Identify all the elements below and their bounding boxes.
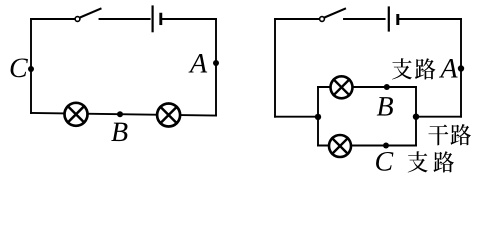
node B (left circuit) [117, 111, 123, 117]
wire: branch rectangle right vertical [415, 87, 417, 146]
label A (left circuit) [188, 54, 207, 72]
lamp L3 (top branch) [331, 76, 353, 98]
label B (right circuit) [377, 97, 393, 115]
wire: right junction to right side [416, 116, 461, 118]
label B (left circuit) [111, 123, 127, 141]
wire: top branch [318, 86, 416, 88]
switch S1 (open) [75, 9, 100, 22]
junction node (right) [413, 114, 419, 120]
wire: left circuit top-left segment [31, 18, 75, 20]
label 支路A (branch A) [392, 58, 458, 79]
lamp L1 [65, 103, 88, 126]
junction node (left) [315, 114, 321, 120]
wire: switch to battery [100, 18, 150, 20]
battery B2 [389, 8, 398, 31]
wire: left circuit left side [30, 19, 32, 113]
wire: left side to left junction [275, 116, 318, 118]
node A (left circuit) [213, 60, 219, 66]
battery B1 [153, 7, 161, 32]
wire: right circuit top-left segment [275, 18, 319, 20]
wire: right circuit right side [460, 19, 462, 117]
node C (left circuit) [28, 66, 34, 72]
lamp L2 [157, 104, 180, 127]
label 干路 (main branch) [428, 124, 471, 145]
wire: switch to battery [344, 18, 385, 20]
wire: right circuit left side [274, 19, 276, 117]
switch S2 (open) [320, 9, 345, 22]
lamp L4 (bottom branch) [329, 135, 351, 157]
wire: left circuit bottom side [31, 113, 216, 116]
wire: branch rectangle left vertical [317, 87, 319, 146]
node A (right circuit, branch A) [458, 65, 464, 71]
wire: battery to top-right corner [400, 18, 462, 20]
node C (right circuit, bottom branch) [383, 143, 389, 149]
node B (right circuit) [384, 84, 390, 90]
wire: left circuit right side [215, 19, 217, 116]
label C (left circuit) [11, 58, 28, 77]
wire: bottom branch [318, 145, 416, 147]
wire: battery to top-right corner [162, 18, 216, 20]
label C 支路 (branch C) [376, 151, 454, 172]
